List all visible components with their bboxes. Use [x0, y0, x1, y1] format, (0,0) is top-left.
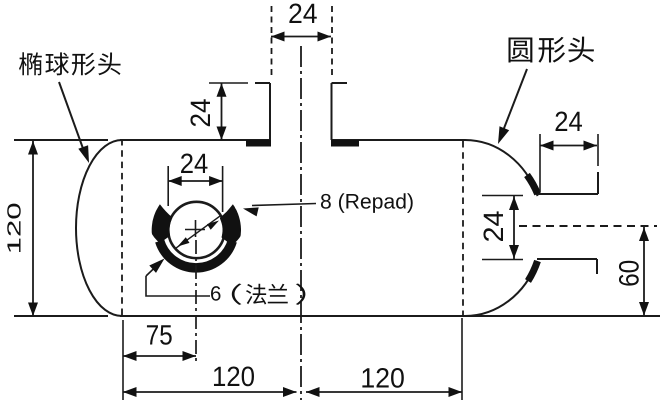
label round head (Chinese) — [508, 38, 532, 63]
right nozzle weld top (thick arc) — [527, 175, 538, 194]
right nozzle centerline (dashed) — [519, 225, 657, 227]
label 6 (flange) — [211, 286, 220, 301]
round head lower arc — [465, 261, 537, 316]
top nozzle right extension line (dashed) — [331, 6, 333, 77]
round head tangent line (dashed) — [462, 141, 464, 317]
dimension 24 (top nozzle height) — [209, 82, 248, 84]
leader 6 (flange) — [146, 276, 210, 296]
top nozzle right wall — [331, 83, 333, 140]
top nozzle right weld pad (filled) — [331, 140, 359, 147]
dimension 120 (bottom left) — [123, 391, 297, 393]
extension line top-left (120 dim) — [14, 139, 108, 141]
top nozzle left wall — [269, 83, 271, 140]
dimension 24 (flange bore) — [167, 166, 169, 206]
flange bottom thick arc — [160, 241, 233, 268]
round head upper arc — [465, 140, 538, 196]
flange centerline (dash-dot) — [195, 240, 197, 362]
extension line bottom right (x=462) — [461, 318, 463, 400]
right nozzle weld bottom (thick arc) — [528, 261, 538, 281]
shell top line right of nozzle — [331, 139, 465, 141]
label ellipsoidal head (Chinese) — [19, 52, 42, 75]
dimension 24 (right nozzle, vertical) — [482, 195, 523, 197]
flange center mark — [185, 229, 205, 231]
top nozzle left extension line (dashed) — [271, 6, 273, 77]
ellipsoidal head tangent line (dashed) — [121, 139, 123, 318]
extension line bottom (x=123) — [122, 320, 124, 400]
shell top line left of nozzle — [120, 139, 270, 141]
vessel vertical centerline (dash-dot) — [300, 46, 302, 400]
shell bottom line — [120, 315, 660, 317]
right nozzle top wall — [538, 193, 598, 195]
top nozzle left weld pad (filled) — [246, 140, 271, 147]
extension line bottom-left (120 dim) — [14, 315, 108, 317]
leader arrow ellipsoidal head — [59, 82, 85, 154]
flange inner diameter arrows — [175, 216, 221, 249]
leader 8 (Repad) — [252, 204, 316, 206]
dimension 120 (bottom right) — [306, 391, 462, 393]
leader arrow round head — [501, 69, 527, 136]
label 8 (Repad) — [321, 193, 413, 213]
repad right crescent (filled) — [220, 204, 241, 246]
dimension 24 (right nozzle, top) — [539, 134, 541, 192]
dimension 24 (top nozzle bore) — [271, 36, 331, 38]
dimension 60 — [643, 227, 645, 316]
flange nozzle circle — [168, 202, 224, 258]
ellipsoidal head outline — [76, 140, 122, 316]
right nozzle bottom wall — [537, 258, 597, 260]
dimension 75 — [123, 355, 196, 357]
dimension 120 (vessel height, left) — [32, 141, 34, 316]
repad left crescent (filled) — [152, 204, 173, 243]
